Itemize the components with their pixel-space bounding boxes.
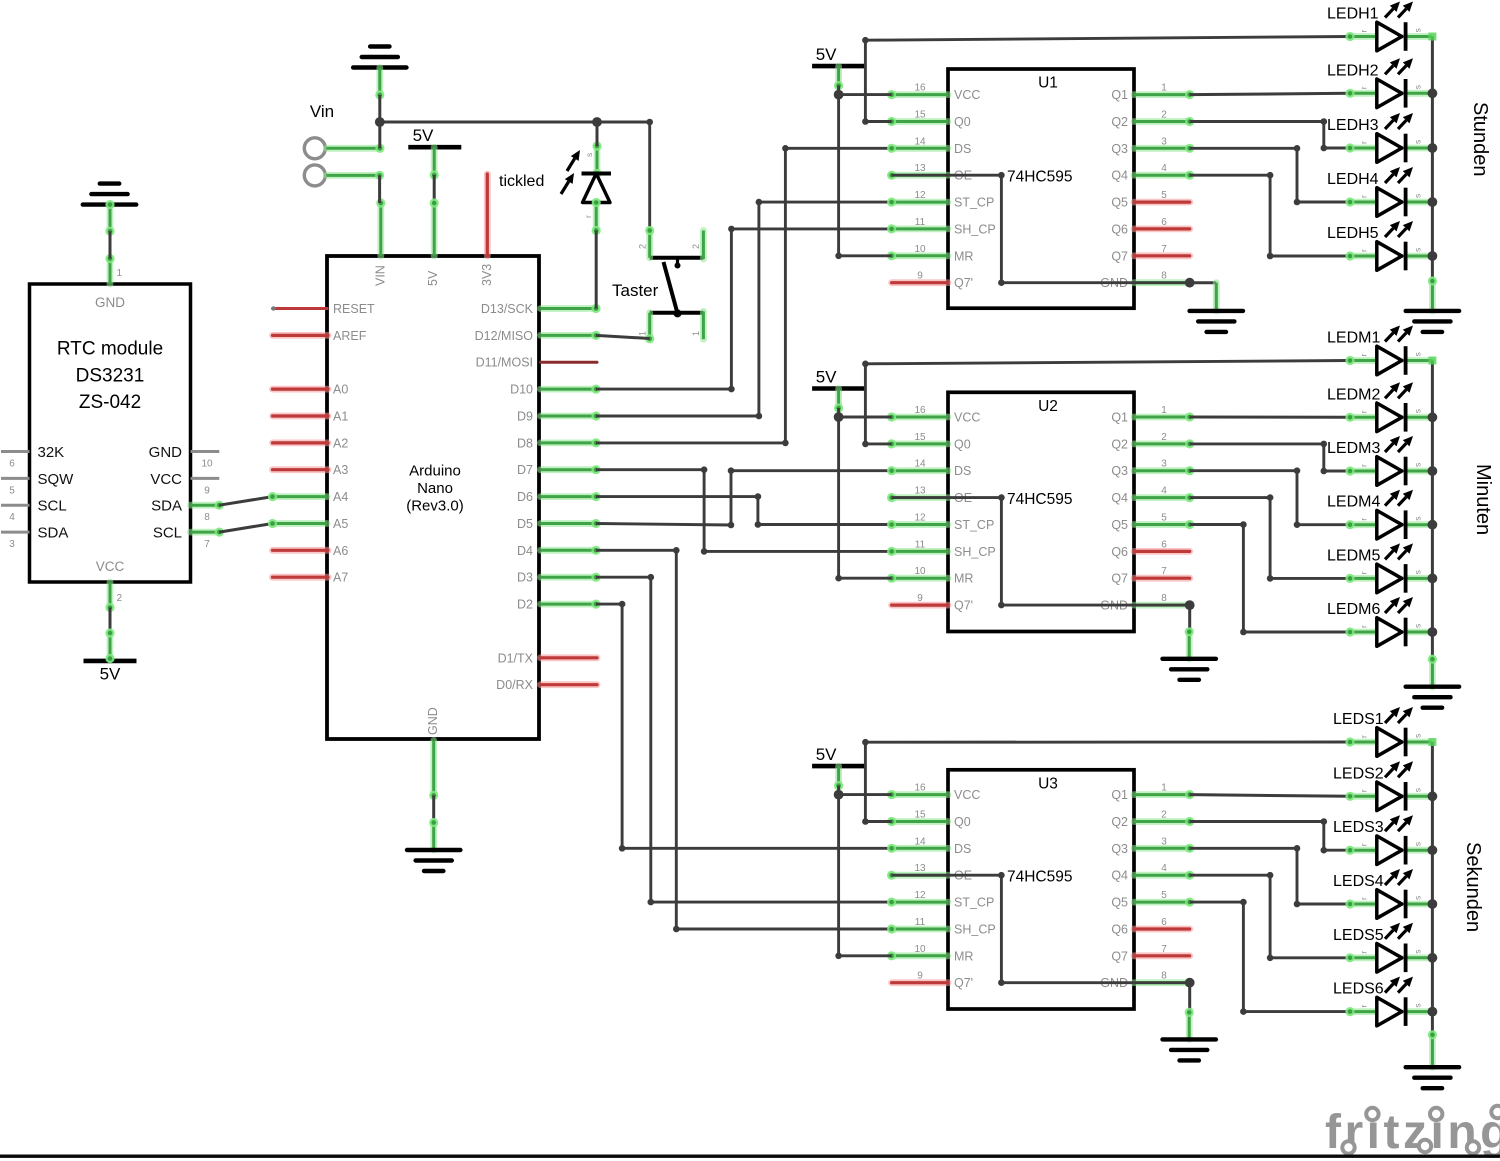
svg-text:10: 10 — [201, 459, 213, 470]
svg-text:D3: D3 — [517, 571, 533, 585]
wire Arduino D12 to Taster pin 1 — [596, 335, 650, 338]
svg-text:Vin: Vin — [310, 102, 334, 121]
svg-text:VIN: VIN — [374, 265, 388, 286]
LED LEDH4 — [1327, 167, 1432, 216]
svg-text:Q5: Q5 — [1111, 896, 1128, 910]
svg-text:Q4: Q4 — [1111, 869, 1128, 883]
wire U2 Q0 to LEDM1 — [862, 361, 1350, 448]
svg-text:Q0: Q0 — [954, 115, 971, 129]
U1 pin 14 DS stub — [887, 144, 948, 153]
pin D3 stub — [541, 573, 601, 582]
LED LEDS4 — [1333, 869, 1432, 918]
wire U3 Q2 to LEDS3 — [1190, 818, 1350, 853]
wire D10 to U1 SH_CP — [596, 226, 892, 393]
svg-text:r: r — [1359, 141, 1369, 144]
svg-text:Q1: Q1 — [1111, 411, 1128, 425]
svg-text:A4: A4 — [333, 490, 348, 504]
U2 pin 5 Q5 stub — [1134, 520, 1194, 529]
svg-text:VCC: VCC — [954, 411, 980, 425]
svg-text:D7: D7 — [517, 463, 533, 477]
svg-text:4: 4 — [9, 512, 15, 523]
svg-text:D5: D5 — [517, 517, 533, 531]
svg-text:LEDS2: LEDS2 — [1333, 765, 1384, 782]
U2 pin 3 Q3 stub — [1134, 466, 1194, 475]
svg-text:Q3: Q3 — [1111, 464, 1128, 478]
svg-text:D4: D4 — [517, 544, 533, 558]
svg-text:r: r — [1359, 1005, 1369, 1008]
svg-text:r: r — [1359, 625, 1369, 628]
LED LEDS2 — [1333, 761, 1432, 810]
svg-text:SQW: SQW — [38, 471, 75, 488]
wire U1 Q2 to LEDH3 — [1190, 118, 1350, 151]
svg-text:MR: MR — [954, 572, 973, 586]
5V supply U2 — [812, 368, 865, 418]
wire D5 to U2 DS — [596, 467, 892, 528]
ground below Arduino — [407, 850, 460, 871]
IC U2 74HC595 — [914, 392, 1167, 631]
svg-text:s: s — [1413, 734, 1423, 738]
svg-text:SH_CP: SH_CP — [954, 923, 996, 937]
ground below U2 — [1163, 659, 1216, 680]
svg-text:1: 1 — [117, 268, 123, 279]
5V supply U3 — [812, 745, 865, 795]
U2 pin 9 Q7' stub — [892, 602, 948, 609]
svg-text:GND: GND — [149, 444, 183, 461]
U2 pin 1 Q1 stub — [1134, 412, 1194, 421]
wire D7 to U2 SH_CP — [596, 466, 892, 554]
svg-text:VCC: VCC — [954, 88, 980, 102]
svg-text:A3: A3 — [333, 463, 348, 477]
svg-text:s: s — [1413, 28, 1423, 32]
svg-text:LEDM6: LEDM6 — [1327, 601, 1380, 618]
pin D7 stub — [541, 465, 601, 474]
pin D12/MISO stub — [541, 331, 601, 340]
svg-text:LEDH2: LEDH2 — [1327, 62, 1379, 79]
svg-text:D13/SCK: D13/SCK — [481, 302, 534, 316]
svg-text:Q4: Q4 — [1111, 491, 1128, 505]
ground below U3 — [1163, 1039, 1216, 1060]
LED LEDS1 — [1333, 707, 1432, 756]
svg-text:D9: D9 — [517, 410, 533, 424]
U2 pin 11 SH_CP stub — [887, 547, 948, 556]
LED LEDM4 — [1327, 490, 1432, 539]
label Minuten — [1472, 464, 1494, 535]
ground below LEDH LEDs — [1406, 311, 1459, 332]
wire tickled LED cathode to top wire — [596, 122, 599, 146]
svg-text:LEDM4: LEDM4 — [1327, 494, 1380, 511]
LED LEDM3 — [1327, 436, 1432, 485]
svg-text:Q2: Q2 — [1111, 437, 1128, 451]
wire Vin junction to Taster pin 2 — [375, 117, 653, 230]
LED LEDS5 — [1333, 923, 1432, 972]
svg-text:LEDM5: LEDM5 — [1327, 547, 1380, 564]
wire U1 GND to ground — [1190, 283, 1217, 311]
pin D8 stub — [541, 438, 601, 447]
svg-text:s: s — [1413, 140, 1423, 144]
svg-text:3V3: 3V3 — [480, 264, 494, 286]
svg-text:Q6: Q6 — [1111, 923, 1128, 937]
svg-text:6: 6 — [9, 459, 15, 470]
svg-text:r: r — [1359, 249, 1369, 252]
pin A6 stub — [273, 547, 329, 554]
wire D4 to U3 SH_CP — [596, 547, 892, 932]
pin D9 stub — [541, 411, 601, 420]
svg-text:Q0: Q0 — [954, 437, 971, 451]
svg-text:s: s — [1413, 950, 1423, 954]
svg-text:8: 8 — [204, 512, 210, 523]
svg-text:r: r — [1359, 518, 1369, 521]
wire 5V to U2 MR — [835, 417, 891, 582]
5V supply U1 — [812, 45, 865, 95]
wire U3 LED bus to ground — [1428, 1030, 1437, 1067]
pin D2 stub — [541, 600, 601, 609]
svg-text:DS: DS — [954, 464, 971, 478]
LED LEDS6 — [1333, 977, 1432, 1026]
wire ground to Vin junction — [375, 68, 384, 149]
pin D1/TX stub — [541, 654, 598, 661]
svg-text:5V: 5V — [413, 126, 434, 145]
svg-text:s: s — [1413, 194, 1423, 198]
svg-text:s: s — [1413, 463, 1423, 467]
svg-text:VCC: VCC — [96, 559, 125, 574]
wire RTC VCC pin to 5V — [105, 608, 114, 664]
U2 pin 12 ST_CP stub — [887, 520, 948, 529]
LED LEDH5 — [1327, 221, 1432, 270]
cathode bus U1 LEDs — [1428, 33, 1438, 282]
svg-text:LEDS3: LEDS3 — [1333, 819, 1384, 836]
pin A1 stub — [273, 413, 329, 420]
svg-text:LEDH1: LEDH1 — [1327, 6, 1379, 23]
svg-text:(Rev3.0): (Rev3.0) — [406, 498, 464, 515]
svg-text:7: 7 — [204, 539, 210, 550]
U1 pin 1 Q1 stub — [1134, 90, 1194, 99]
svg-text:s: s — [1413, 842, 1423, 846]
pin 5V stub — [408, 126, 461, 256]
svg-text:D12/MISO: D12/MISO — [475, 329, 534, 343]
svg-text:Nano: Nano — [417, 480, 453, 497]
svg-text:D6: D6 — [517, 490, 533, 504]
svg-text:SH_CP: SH_CP — [954, 222, 996, 236]
svg-text:r: r — [1359, 951, 1369, 954]
svg-text:SCL: SCL — [153, 525, 182, 542]
svg-text:74HC595: 74HC595 — [1007, 491, 1073, 508]
wire D3 to U3 ST_CP — [596, 574, 892, 905]
U2 pin 14 DS stub — [887, 466, 948, 475]
svg-text:74HC595: 74HC595 — [1007, 169, 1073, 186]
wire U1 Q1 to LEDH2 — [1190, 93, 1350, 94]
pin GND stub — [429, 741, 438, 801]
svg-text:LEDS1: LEDS1 — [1333, 711, 1384, 728]
pin A7 stub — [273, 574, 329, 581]
svg-text:D2: D2 — [517, 598, 533, 612]
svg-text:Sekunden: Sekunden — [1462, 842, 1484, 932]
svg-text:D0/RX: D0/RX — [496, 678, 533, 692]
pin D13/SCK stub — [541, 304, 601, 313]
svg-text:74HC595: 74HC595 — [1007, 869, 1073, 886]
svg-text:5V: 5V — [426, 270, 440, 286]
svg-text:1: 1 — [638, 331, 648, 336]
svg-text:ST_CP: ST_CP — [954, 896, 994, 910]
LED LEDM1 — [1327, 326, 1432, 375]
U3 pin 11 SH_CP stub — [887, 924, 948, 933]
svg-text:r: r — [1359, 843, 1369, 846]
wire U3 Q0 to LEDS1 — [862, 739, 1350, 825]
svg-text:r: r — [1359, 897, 1369, 900]
svg-text:A1: A1 — [333, 410, 348, 424]
wire D9 to U1 ST_CP — [596, 199, 892, 420]
wire U3 Q1 to LEDS2 — [1190, 795, 1350, 797]
wire U2 Q1 to LEDM2 — [1190, 416, 1350, 419]
pin A0 stub — [273, 386, 329, 393]
wire U2 Q4 to LEDM5 — [1190, 494, 1350, 581]
svg-text:5V: 5V — [816, 368, 837, 387]
U2 pin 4 Q4 stub — [1134, 493, 1194, 502]
svg-text:Stunden: Stunden — [1469, 102, 1491, 177]
LED LEDH1 — [1327, 2, 1432, 51]
svg-text:s: s — [1413, 85, 1423, 89]
U2 pin 6 Q6 stub — [1134, 548, 1190, 555]
svg-text:D8: D8 — [517, 436, 533, 450]
wire U3 Q5 to LEDS6 — [1190, 899, 1350, 1015]
pin RESET stub — [271, 306, 327, 310]
IC U3 74HC595 — [914, 770, 1167, 1009]
cathode bus U2 LEDs — [1428, 357, 1438, 660]
svg-text:D1/TX: D1/TX — [498, 651, 534, 665]
svg-text:DS3231: DS3231 — [76, 366, 145, 387]
bottom border — [0, 1155, 1500, 1158]
svg-text:A7: A7 — [333, 571, 348, 585]
U1 pin 9 Q7' stub — [892, 279, 948, 286]
U3 pin 9 Q7' stub — [892, 979, 948, 986]
U2 pin 10 MR stub — [887, 574, 948, 583]
svg-text:r: r — [1359, 571, 1369, 574]
svg-text:Taster: Taster — [612, 281, 659, 300]
U1 pin 15 Q0 stub — [887, 117, 948, 126]
svg-text:MR: MR — [954, 949, 973, 963]
svg-text:AREF: AREF — [333, 329, 367, 343]
fritzing watermark — [1325, 1106, 1500, 1159]
svg-text:Q6: Q6 — [1111, 222, 1128, 236]
wire U1 OE to GND — [892, 172, 1195, 288]
pin 3V3 stub (unconnected wire) — [484, 174, 491, 256]
LED LEDM6 — [1327, 597, 1432, 646]
svg-text:2: 2 — [691, 244, 701, 249]
pin A5 stub — [268, 519, 327, 528]
svg-text:Q0: Q0 — [954, 815, 971, 829]
svg-text:LEDS4: LEDS4 — [1333, 873, 1384, 890]
svg-text:LEDH5: LEDH5 — [1327, 225, 1379, 242]
U2 pin 2 Q2 stub — [1134, 439, 1194, 448]
svg-text:9: 9 — [204, 485, 210, 496]
pin D10 stub — [541, 385, 601, 394]
RTC module DS3231 ZS-042 — [1, 254, 224, 612]
wire 5V to U1 VCC — [834, 90, 892, 100]
svg-text:VCC: VCC — [954, 788, 980, 802]
connector Vin — [304, 102, 384, 186]
ground above RTC (pin 1) — [83, 184, 136, 205]
U1 pin 5 Q5 stub — [1134, 199, 1190, 206]
svg-text:s: s — [1413, 352, 1423, 356]
LED LEDS3 — [1333, 815, 1432, 864]
wire U1 LED bus to ground — [1428, 276, 1437, 311]
U1 pin 8 GND stub — [1134, 279, 1190, 286]
wire U2 LED bus to ground — [1428, 655, 1437, 687]
wire D8 to U1 DS — [596, 145, 892, 446]
svg-text:GND: GND — [426, 707, 440, 735]
svg-text:LEDS5: LEDS5 — [1333, 927, 1384, 944]
svg-text:Minuten: Minuten — [1472, 464, 1494, 535]
pin A2 stub — [273, 439, 329, 446]
U3 pin 2 Q2 stub — [1134, 817, 1194, 826]
svg-text:s: s — [1413, 516, 1423, 520]
wire U2 OE to GND — [892, 494, 1195, 610]
svg-text:ZS-042: ZS-042 — [79, 392, 141, 413]
U2 pin 8 GND stub — [1134, 602, 1190, 609]
svg-text:VCC: VCC — [150, 471, 182, 488]
U1 pin 6 Q6 stub — [1134, 225, 1190, 232]
U3 pin 15 Q0 stub — [887, 817, 948, 826]
svg-text:s: s — [1413, 624, 1423, 628]
pin D5 stub — [541, 519, 601, 528]
pin AREF stub — [273, 332, 329, 339]
U1 pin 4 Q4 stub — [1134, 171, 1194, 180]
LED LEDH3 — [1327, 113, 1432, 162]
U1 pin 12 ST_CP stub — [887, 198, 948, 207]
U2 pin 7 Q7 stub — [1134, 575, 1190, 582]
svg-text:r: r — [1359, 30, 1369, 33]
svg-text:GND: GND — [95, 295, 125, 310]
svg-text:Q7': Q7' — [954, 599, 973, 613]
svg-text:s: s — [1413, 570, 1423, 574]
svg-text:Q5: Q5 — [1111, 196, 1128, 210]
svg-text:A5: A5 — [333, 517, 348, 531]
wire 5V to U1 MR — [835, 95, 891, 260]
U1 pin 13 OE stub — [887, 171, 948, 180]
wire Arduino GND to ground — [429, 795, 438, 850]
svg-text:LEDH4: LEDH4 — [1327, 171, 1379, 188]
wire U2 GND to ground — [1185, 605, 1194, 659]
svg-text:5V: 5V — [816, 45, 837, 64]
svg-text:3: 3 — [9, 539, 15, 550]
wire U3 OE to GND — [892, 872, 1195, 988]
svg-text:2: 2 — [638, 244, 648, 249]
svg-text:1: 1 — [691, 331, 701, 336]
svg-text:Q1: Q1 — [1111, 88, 1128, 102]
svg-text:Arduino: Arduino — [409, 463, 461, 480]
U2 pin 13 OE stub — [887, 493, 948, 502]
svg-text:Q7: Q7 — [1111, 949, 1128, 963]
pushbutton Taster — [612, 226, 703, 344]
pin D6 stub — [541, 492, 601, 501]
U3 pin 16 VCC stub — [887, 790, 948, 799]
pin VIN stub — [376, 198, 385, 256]
svg-text:2: 2 — [117, 593, 123, 604]
svg-text:r: r — [1359, 410, 1369, 413]
U3 pin 12 ST_CP stub — [887, 898, 948, 907]
svg-text:A2: A2 — [333, 436, 348, 450]
svg-text:Q2: Q2 — [1111, 115, 1128, 129]
wire U1 Q0 to LEDH1 — [862, 37, 1350, 125]
svg-text:A6: A6 — [333, 544, 348, 558]
svg-text:Q7': Q7' — [954, 276, 973, 290]
svg-text:ST_CP: ST_CP — [954, 196, 994, 210]
svg-text:MR: MR — [954, 249, 973, 263]
LED LEDH2 — [1327, 58, 1432, 107]
svg-text:32K: 32K — [38, 444, 65, 461]
wire U2 Q5 to LEDM6 — [1190, 521, 1350, 635]
svg-text:Q5: Q5 — [1111, 518, 1128, 532]
svg-text:SDA: SDA — [38, 525, 69, 542]
wire 5V to U3 MR — [835, 795, 891, 960]
svg-text:SDA: SDA — [151, 498, 182, 515]
U2 pin 16 VCC stub — [887, 412, 948, 421]
pin A4 stub — [268, 492, 327, 501]
svg-text:LEDM1: LEDM1 — [1327, 330, 1380, 347]
svg-text:RESET: RESET — [333, 302, 375, 316]
U3 pin 4 Q4 stub — [1134, 871, 1194, 880]
wire RTC GND pin to ground — [105, 200, 114, 259]
svg-text:LEDS6: LEDS6 — [1333, 981, 1384, 998]
svg-text:Q1: Q1 — [1111, 788, 1128, 802]
svg-text:SH_CP: SH_CP — [954, 545, 996, 559]
wire U3 Q4 to LEDS5 — [1190, 872, 1350, 961]
svg-text:Q7: Q7 — [1111, 249, 1128, 263]
wire D2 to U3 DS — [596, 601, 892, 852]
svg-text:5V: 5V — [100, 664, 121, 683]
wire U3 GND to ground — [1185, 983, 1194, 1040]
pin A3 stub — [273, 466, 329, 473]
svg-text:RTC module: RTC module — [57, 339, 163, 360]
svg-text:LEDH3: LEDH3 — [1327, 117, 1379, 134]
svg-text:U3: U3 — [1038, 775, 1058, 792]
svg-text:LEDM3: LEDM3 — [1327, 440, 1380, 457]
wire D6 to U2 ST_CP — [596, 493, 892, 527]
ground below U1 — [1190, 311, 1243, 332]
svg-text:r: r — [583, 215, 593, 218]
wire U2 Q2 to LEDM3 — [1190, 441, 1350, 475]
svg-text:s: s — [1413, 409, 1423, 413]
wire U1 Q3 to LEDH4 — [1190, 145, 1350, 205]
U3 pin 3 Q3 stub — [1134, 844, 1194, 853]
svg-text:Q3: Q3 — [1111, 142, 1128, 156]
pin D11/MOSI stub (unconnected wire) — [541, 361, 598, 364]
svg-text:DS: DS — [954, 842, 971, 856]
wire U1 Q4 to LEDH5 — [1190, 172, 1350, 259]
svg-text:Q2: Q2 — [1111, 815, 1128, 829]
wire RTC SCL to Arduino A5 — [219, 524, 272, 533]
U3 pin 6 Q6 stub — [1134, 926, 1190, 933]
cathode bus U3 LEDs — [1428, 738, 1438, 1035]
U1 pin 16 VCC stub — [887, 90, 948, 99]
wire RTC SDA to Arduino A4 — [219, 497, 272, 506]
U3 pin 8 GND stub — [1134, 979, 1190, 986]
wire tickled LED anode to Arduino D13 — [595, 231, 598, 309]
svg-text:Q7: Q7 — [1111, 572, 1128, 586]
U2 pin 15 Q0 stub — [887, 439, 948, 448]
svg-text:U1: U1 — [1038, 75, 1058, 92]
U3 pin 13 OE stub — [887, 871, 948, 880]
svg-text:s: s — [1413, 1003, 1423, 1007]
U1 pin 7 Q7 stub — [1134, 252, 1190, 259]
U3 pin 14 DS stub — [887, 844, 948, 853]
svg-text:D11/MOSI: D11/MOSI — [476, 356, 533, 370]
svg-text:s: s — [1413, 248, 1423, 252]
U1 pin 11 SH_CP stub — [887, 224, 948, 233]
svg-text:LEDM2: LEDM2 — [1327, 386, 1380, 403]
svg-text:SCL: SCL — [38, 498, 67, 515]
svg-text:ST_CP: ST_CP — [954, 518, 994, 532]
svg-text:s: s — [584, 153, 594, 157]
